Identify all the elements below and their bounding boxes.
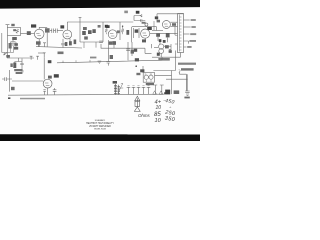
coupling capacitor C8	[105, 25, 108, 28]
rectifier filament stub F6	[153, 85, 157, 94]
junction ticks heater pins	[37, 43, 46, 47]
wire cathode pair	[15, 58, 22, 63]
resistor R11	[82, 31, 86, 35]
label V4 KT66	[147, 27, 152, 30]
resistor R9	[69, 41, 72, 45]
interlock symbol	[179, 69, 181, 72]
power section enclosure line	[175, 51, 177, 71]
bus ticks	[63, 60, 90, 63]
wire V5 screen	[170, 25, 177, 27]
capacitor C14	[43, 90, 45, 95]
cathode resistor R4	[13, 63, 16, 69]
node circle pin	[145, 23, 148, 26]
grid stopper box V4	[134, 28, 139, 38]
preamp outlet label2	[16, 72, 22, 74]
label 6.3V	[90, 57, 96, 59]
wire shield left	[2, 33, 14, 53]
power transformer T2 winding B	[117, 85, 120, 95]
label bias	[163, 40, 166, 43]
input level control enclosure	[8, 28, 21, 36]
potentiometer wiper arrow	[4, 53, 7, 56]
ground G1	[21, 69, 24, 74]
heater stub H1	[30, 56, 33, 60]
resistor R26	[14, 43, 18, 46]
secondary tap gnd	[184, 46, 187, 48]
wire V1 plate	[39, 27, 47, 29]
V7 grid dash	[45, 83, 49, 85]
B+ rail top	[80, 21, 133, 23]
choke component on bus	[135, 58, 139, 61]
plug base label	[184, 97, 189, 99]
value label R1	[13, 29, 16, 31]
secondary tap common	[184, 41, 189, 44]
capacitor C2 cathode bypass	[20, 59, 23, 69]
svg-text:25 WATT AMPLIFIER: 25 WATT AMPLIFIER	[89, 125, 111, 128]
capacitor C10 electrolytic	[106, 62, 110, 66]
label 4 ohm	[190, 33, 196, 35]
ground triangle G2	[153, 91, 157, 95]
tube V7	[43, 79, 52, 88]
resistor R13	[92, 29, 95, 33]
label V5	[155, 16, 158, 19]
wire screen rail	[131, 27, 133, 42]
V2 grid dash	[65, 34, 69, 36]
capacitor C3 coupling to V1 grid	[27, 31, 31, 35]
secondary tap 8 ohm	[184, 26, 191, 28]
capacitor C11	[126, 49, 130, 50]
wire dropping resistors	[101, 40, 114, 62]
wire bias left	[154, 47, 158, 49]
label V4 cathode	[142, 39, 146, 42]
capacitor C5 coupling	[56, 29, 64, 33]
label note	[48, 76, 52, 79]
junction dot node B	[135, 65, 137, 67]
V4 grid dash	[142, 33, 147, 36]
bias pot arrow head	[159, 39, 162, 42]
filter capacitor can C12	[165, 90, 170, 95]
label R4	[10, 63, 12, 67]
legend triangle symbol	[135, 96, 140, 101]
label AC interlock	[181, 68, 194, 70]
label R11	[83, 27, 87, 30]
resistor R5 plate load	[45, 28, 50, 32]
wire T1 bottom return	[152, 53, 181, 58]
label network	[98, 25, 101, 28]
input jack J1	[6, 25, 10, 28]
capacitor C6	[61, 44, 65, 48]
legend triangle symbol 2	[134, 107, 140, 112]
rectifier socket box	[143, 73, 154, 83]
wire heater tap	[38, 52, 45, 54]
resistor R24	[11, 87, 15, 90]
capacitor C16	[99, 41, 103, 42]
bias control circle A	[159, 44, 164, 49]
AC plug symbol	[185, 91, 189, 95]
filament stub F4	[142, 87, 146, 94]
label INPUT	[11, 24, 14, 26]
label GAIN	[6, 55, 10, 58]
box top terminal	[79, 18, 82, 22]
top film border bar	[0, 0, 200, 9]
label 16 ohm	[191, 19, 196, 21]
svg-text:10: 10	[155, 118, 162, 124]
wire V4 screen tap	[152, 27, 156, 31]
filament stub F5	[147, 87, 151, 94]
feedback capacitor C9	[134, 16, 145, 22]
resistor R20	[156, 33, 160, 37]
T1 winding marks	[175, 15, 180, 52]
wire V7 plate from heater line	[43, 57, 45, 79]
bias feed line	[101, 44, 152, 53]
wire plate load down	[46, 33, 48, 47]
capacitor C1	[11, 39, 16, 47]
label B+	[48, 60, 52, 63]
power transformer T2 winding A	[114, 84, 117, 95]
resistor R10	[74, 40, 77, 45]
preamp outlet label	[14, 69, 22, 71]
wire screen dropper	[128, 42, 132, 60]
handwritten note under line	[158, 58, 169, 61]
socket circle P1	[144, 75, 148, 79]
wire input bus down	[7, 36, 9, 59]
capacitor C13	[2, 77, 12, 81]
label V1 12AX7	[31, 24, 36, 27]
wire grid V7	[12, 80, 43, 82]
wire HV to interlock	[153, 71, 187, 95]
wire V5 grid drop	[153, 21, 155, 30]
feedback resistor R17	[134, 14, 142, 17]
svg-text:10: 10	[156, 105, 162, 111]
wire V7 cathode	[47, 88, 49, 95]
svg-text:Ohms: Ohms	[138, 113, 151, 118]
label bias value	[169, 50, 172, 53]
label R23	[110, 55, 113, 59]
bias pot arrow	[159, 40, 161, 45]
V1 grid dash	[36, 34, 41, 36]
resistor R21	[166, 33, 170, 37]
bottom film border bar	[0, 134, 200, 141]
V5 grid dash	[164, 24, 168, 26]
resistor R15	[121, 27, 124, 35]
resistor R2 grid	[12, 37, 17, 40]
label C12	[174, 90, 180, 94]
screen resistor R19	[172, 23, 176, 26]
capacitor C4 coupling	[50, 29, 56, 33]
ground triangle G3	[159, 91, 163, 95]
label 8 ohm	[191, 26, 195, 28]
wire rectifier feed	[142, 66, 144, 73]
ground bus mid	[36, 47, 82, 48]
junction dot	[122, 26, 123, 27]
label bias lower	[157, 53, 160, 56]
label C11	[131, 50, 134, 54]
resistor R14	[105, 29, 107, 35]
label V2	[60, 25, 64, 28]
label AC interlock band	[178, 63, 196, 65]
phase inverter network box	[80, 22, 103, 42]
socket circle P2	[149, 75, 153, 79]
legend square symbol	[135, 101, 140, 106]
wire V3 plate	[117, 22, 120, 40]
output transformer T1 core	[178, 14, 184, 53]
resistor R3	[14, 47, 18, 50]
B+ bus long	[57, 57, 162, 63]
V3 grid dash	[110, 34, 114, 36]
svg-text:MODEL W-5M: MODEL W-5M	[94, 129, 106, 131]
wire V4 grid	[132, 26, 152, 28]
wire V5 plate	[170, 21, 177, 23]
tube V4 KT66	[141, 29, 150, 38]
wire V2 plate to B+ rail	[67, 22, 80, 30]
label feedback network	[136, 11, 140, 14]
T2 primary diagonal arrow	[118, 83, 123, 93]
footnote text under chassis line	[20, 98, 45, 100]
label near socket	[140, 69, 144, 72]
bias control circle B	[159, 49, 164, 54]
secondary tap 4 ohm	[184, 33, 190, 35]
chassis bus bottom long	[8, 94, 164, 95]
svg-text:HEATHKIT HIGH FIDELITY: HEATHKIT HIGH FIDELITY	[86, 122, 114, 125]
wire V1 grid	[21, 33, 35, 35]
tube V1 12AX7	[34, 29, 44, 39]
label V7	[54, 74, 59, 77]
wire preamp vertical	[9, 70, 11, 92]
heater stub H2	[36, 56, 39, 60]
wire V2 cathode components	[63, 39, 70, 43]
label gnd tap	[187, 46, 191, 48]
wire bias bottom	[160, 53, 162, 57]
filament stub F3	[137, 87, 141, 94]
wire bias right	[164, 44, 171, 53]
ground symbol G4	[98, 61, 102, 63]
tube V5 KT66	[162, 21, 170, 29]
label common	[189, 40, 196, 42]
T1 primary hatches	[180, 17, 182, 50]
wire under V5	[152, 30, 163, 33]
filament stub F1	[127, 87, 131, 94]
wire ground bus first stage	[7, 57, 34, 59]
label V3 pin	[117, 30, 120, 33]
input cluster wires	[11, 42, 17, 52]
label cathode V3	[109, 41, 113, 44]
filament stub F2	[132, 87, 136, 94]
svg-text:SCHEMATIC: SCHEMATIC	[95, 119, 106, 122]
stray component mark	[124, 11, 128, 14]
T2 label	[113, 81, 117, 84]
label on feed line	[134, 49, 137, 52]
resistor R1 input level	[16, 29, 19, 33]
resistor R22	[112, 41, 116, 45]
capacitor C7	[84, 36, 88, 39]
filament pin labels	[127, 85, 149, 87]
tube V3 12BH7	[108, 30, 117, 39]
rectifier filament stub F7	[160, 85, 164, 94]
arrow end chassis bus	[164, 92, 168, 94]
tube V2 12BH7	[63, 30, 72, 39]
label cathode R6	[36, 41, 41, 44]
label C9	[142, 22, 146, 24]
label cluster input network	[9, 43, 12, 49]
socket pin marks	[145, 74, 152, 82]
wire cathodes V4 V5	[145, 26, 175, 42]
secondary tap 16 ohm	[184, 19, 190, 21]
tick below bus start	[8, 97, 10, 99]
wire V4 plate	[150, 33, 178, 35]
resistor R18	[135, 29, 139, 32]
heater stub H3	[43, 53, 46, 57]
label V3	[106, 25, 110, 28]
resistor R25	[165, 45, 169, 48]
label under socket	[146, 83, 154, 85]
title block text	[86, 119, 114, 131]
resistor R12	[88, 30, 92, 34]
wire V1 cathode	[38, 39, 40, 47]
resistor R16	[126, 30, 129, 35]
feedback line top	[157, 14, 184, 21]
label cursive note	[136, 73, 140, 75]
wire box bottom drops	[84, 42, 96, 48]
resistor R8	[65, 42, 68, 46]
label V5 KT66	[157, 20, 160, 23]
capacitor C15	[53, 88, 57, 95]
label test point	[58, 52, 64, 55]
